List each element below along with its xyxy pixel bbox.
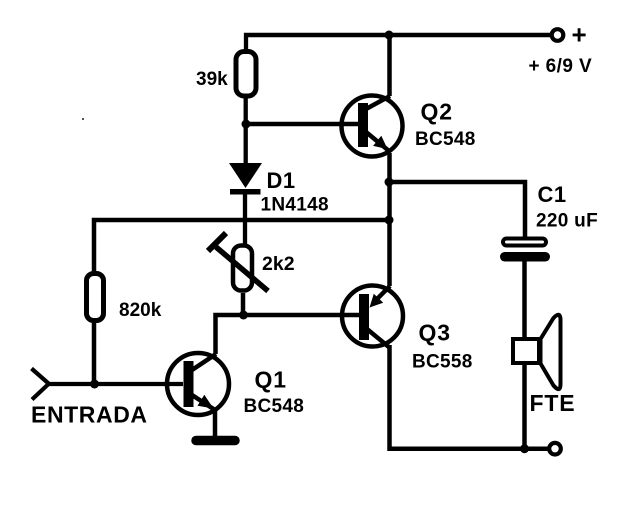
svg-text:1N4148: 1N4148 bbox=[261, 195, 329, 216]
svg-text:+ 6/9 V: + 6/9 V bbox=[529, 56, 593, 77]
wire Q2 collector to rail bbox=[387, 35, 392, 96]
trimpot R2 adjustment arrow bbox=[208, 233, 268, 291]
wire D1 cathode to trimpot top bbox=[243, 193, 247, 246]
speaker FTE bbox=[513, 315, 561, 389]
wire Q1 collector to Q3 base row bbox=[216, 315, 360, 354]
svg-text:ENTRADA: ENTRADA bbox=[31, 402, 148, 428]
capacitor C1 top plate bbox=[503, 239, 546, 246]
svg-text:Q2: Q2 bbox=[421, 99, 453, 125]
trimpot R2 2k2 body bbox=[233, 246, 252, 291]
wire main column Q2/Q3 (output node to Q3 emitter) bbox=[387, 182, 392, 286]
wire speaker to bottom node bbox=[522, 364, 527, 449]
ground bar bbox=[196, 436, 235, 446]
svg-text:Q3: Q3 bbox=[419, 320, 451, 346]
junction dot at emitter column y219 bbox=[385, 216, 394, 225]
transistor Q3 BC558 (PNP) bbox=[342, 286, 403, 349]
wire Q3 emitter to bottom rail bbox=[390, 345, 549, 449]
svg-text:BC548: BC548 bbox=[244, 396, 305, 417]
transistor Q2 BC548 (NPN) bbox=[342, 96, 403, 157]
svg-text:BC558: BC558 bbox=[412, 352, 473, 373]
wire top rail to R1 top bbox=[244, 33, 248, 53]
wire R1 bottom to D1 anode bbox=[244, 96, 248, 165]
transistor Q1 BC548 (NPN) bbox=[167, 353, 229, 415]
resistor R1 39k body bbox=[236, 52, 256, 97]
junction dot input node bbox=[90, 380, 99, 389]
junction dot output node bbox=[385, 178, 394, 187]
diode D1 cathode bar bbox=[230, 189, 261, 195]
junction dot Q2 base node bbox=[242, 120, 251, 129]
wire trimpot bottom to node bbox=[241, 293, 246, 315]
svg-text:220 uF: 220 uF bbox=[536, 211, 598, 232]
wire output node to C1 bbox=[389, 182, 525, 238]
svg-text:2k2: 2k2 bbox=[262, 253, 295, 275]
svg-text:39k: 39k bbox=[196, 69, 228, 90]
resistor R3 820k body bbox=[87, 274, 104, 321]
wire Q1 emitter to ground bbox=[213, 410, 218, 438]
svg-text:+: + bbox=[572, 20, 587, 50]
svg-text:820k: 820k bbox=[119, 300, 162, 321]
wire top power rail bbox=[244, 33, 551, 38]
junction dot trimpot/collector node bbox=[239, 311, 248, 320]
node VCC junction dot bbox=[385, 31, 394, 40]
speck artifact bbox=[82, 118, 84, 120]
svg-text:Q1: Q1 bbox=[255, 367, 287, 393]
svg-text:FTE: FTE bbox=[530, 390, 576, 416]
wire C1 to speaker bbox=[522, 261, 527, 338]
terminal + supply (open circle) bbox=[552, 29, 564, 41]
svg-text:C1: C1 bbox=[538, 182, 567, 207]
capacitor C1 bottom plate bbox=[500, 252, 550, 262]
wire Q2 base bbox=[246, 122, 359, 127]
svg-text:D1: D1 bbox=[267, 168, 296, 193]
input arrow chevron ENTRADA bbox=[32, 369, 49, 400]
diode D1 triangle (anode) bbox=[229, 163, 262, 188]
wire Q2 emitter down to output node bbox=[387, 153, 392, 182]
terminal bottom return (open circle) bbox=[549, 443, 561, 455]
wire node row (820k corner to Q2 emitter column) bbox=[94, 220, 389, 271]
wire input to Q1 base bbox=[47, 382, 183, 386]
svg-text:BC548: BC548 bbox=[415, 129, 476, 150]
wire 820k bottom to input node bbox=[92, 323, 97, 384]
junction dot bottom node bbox=[520, 444, 529, 453]
